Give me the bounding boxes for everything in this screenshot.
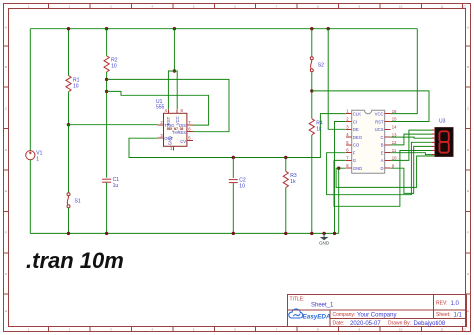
svg-text:14: 14 (392, 125, 397, 130)
svg-text:11: 11 (440, 328, 443, 332)
svg-text:A: A (381, 158, 384, 163)
svg-text:F: F (467, 231, 469, 235)
wire R2 to DIS node (106, 72, 108, 95)
svg-text:B: B (467, 65, 469, 69)
wire segment A (391, 130, 434, 160)
node GND pin8 junction (337, 167, 340, 170)
node C1 bottom junction (105, 232, 108, 235)
svg-text:13: 13 (392, 132, 397, 137)
wire R1 top lead (68, 29, 70, 76)
node RST junction (310, 89, 313, 92)
svg-text:TITLE:: TITLE: (290, 297, 305, 303)
node DE top junction (327, 27, 330, 30)
svg-text:15: 15 (392, 117, 397, 122)
capacitor C2 (229, 177, 246, 189)
svg-text:A: A (467, 26, 469, 30)
svg-text:A: A (5, 26, 7, 30)
wire V1 bottom lead (29, 160, 31, 234)
svg-text:1k: 1k (290, 179, 296, 185)
svg-text:1u: 1u (113, 183, 119, 189)
svg-text:10: 10 (399, 328, 403, 332)
wire 555 supply drop (173, 29, 175, 71)
wire C2 top lead (232, 158, 234, 179)
IC U2 counter CD4026 (346, 109, 397, 174)
wire S2 top lead (311, 29, 313, 57)
svg-text:H: H (467, 309, 469, 313)
wire DIS loop (107, 79, 229, 131)
wire RST pin4 feed (168, 71, 174, 109)
wire display common (336, 156, 435, 187)
capacitor C1 (102, 177, 119, 189)
node C2 bottom junction (232, 232, 235, 235)
svg-text:12: 12 (462, 5, 466, 9)
svg-text:Your Company: Your Company (357, 312, 396, 318)
wire GND bottom rail (30, 232, 338, 234)
svg-text:S1: S1 (75, 199, 81, 205)
wire segment B (391, 134, 434, 145)
svg-text:EasyEDA: EasyEDA (303, 313, 331, 320)
ground (319, 233, 330, 245)
wire C1 to bottom rail (106, 183, 108, 234)
svg-text:D: D (380, 166, 383, 171)
svg-text:C: C (380, 135, 383, 140)
svg-text:555_N7_08: 555_N7_08 (167, 127, 184, 131)
svg-text:16: 16 (392, 109, 397, 114)
wire THRES loop (107, 91, 209, 125)
node R1 top junction (67, 27, 70, 30)
wire R1 to TRIG node (68, 92, 70, 125)
node R4 bottom junction (310, 232, 313, 235)
node CI bottom junction (333, 232, 336, 235)
node R3 bottom junction (284, 232, 287, 235)
svg-text:1: 1 (36, 157, 39, 163)
node 555 supply junction top (173, 27, 176, 30)
wire VCC16 line (391, 29, 418, 114)
switch S1 (67, 193, 81, 208)
node R2 top junction (105, 27, 108, 30)
wire OUT line (129, 114, 346, 158)
svg-text:GND: GND (319, 240, 330, 245)
display U3 seven-segment (432, 119, 453, 157)
svg-text:B: B (381, 143, 384, 148)
wire S1 to bottom rail (68, 208, 70, 234)
wire segment E (391, 153, 434, 155)
node ground junction (322, 232, 325, 235)
resistor R1 (66, 76, 80, 92)
svg-text:Sheet_1: Sheet_1 (311, 303, 334, 309)
wire segment D (391, 146, 434, 193)
voltage source V1 (26, 151, 43, 163)
svg-text:Drawn By:: Drawn By: (388, 321, 411, 327)
svg-text:.tran 10m: .tran 10m (26, 248, 124, 273)
wire segment F (327, 142, 434, 194)
node TRIG junction (67, 123, 70, 126)
svg-text:CLK: CLK (353, 112, 361, 117)
svg-text:11: 11 (440, 5, 443, 9)
svg-text:CI: CI (353, 119, 357, 124)
wire GND pin8 line (339, 168, 346, 233)
node C2 junction (232, 156, 235, 159)
switch S2 (310, 57, 324, 72)
svg-text:CV: CV (180, 139, 186, 144)
svg-text:Date:: Date: (333, 321, 345, 327)
node R3 junction (284, 156, 287, 159)
svg-text:GND: GND (168, 136, 173, 145)
wire R2 top lead (106, 29, 108, 56)
op-amp U1 555 timer (156, 99, 193, 151)
resistor R2 (104, 56, 118, 72)
wire S2 to RST node (311, 72, 313, 119)
wire TRIG line (69, 124, 158, 126)
svg-text:555: 555 (156, 104, 165, 110)
svg-text:B: B (5, 65, 7, 69)
svg-text:Company:: Company: (333, 312, 356, 318)
EasyEDA logo (289, 309, 331, 320)
svg-text:12: 12 (462, 328, 466, 332)
wire segment C (391, 137, 434, 138)
svg-text:GND: GND (353, 166, 362, 171)
wire CI line (335, 122, 346, 234)
node DIS junction (105, 78, 108, 81)
svg-text:CO: CO (353, 143, 360, 148)
svg-text:2020-05-07: 2020-05-07 (350, 321, 381, 327)
svg-text:Debajyoti08: Debajyoti08 (414, 321, 446, 327)
title block (288, 295, 467, 327)
svg-text:10: 10 (399, 5, 403, 9)
svg-text:1/1: 1/1 (454, 312, 463, 318)
svg-text:VCC: VCC (375, 112, 384, 117)
node THRES junction (105, 90, 108, 93)
svg-text:REV:: REV: (436, 301, 447, 307)
wire R3 top lead (285, 158, 287, 172)
svg-text:U3: U3 (439, 119, 446, 125)
svg-text:G: G (353, 158, 356, 163)
svg-text:DEO: DEO (353, 135, 363, 140)
svg-text:1k: 1k (316, 127, 322, 133)
wire VCC top rail (30, 28, 417, 30)
svg-text:E: E (467, 189, 469, 193)
wire DE line (328, 29, 346, 130)
wire V1 top lead (29, 29, 31, 151)
svg-text:F: F (353, 151, 356, 156)
svg-text:12: 12 (392, 140, 397, 145)
svg-text:UCS: UCS (375, 127, 384, 132)
svg-text:10: 10 (239, 183, 245, 189)
wire R3 bottom lead (285, 188, 287, 234)
node 555 supply split (173, 69, 176, 72)
wire R2 node to C1 (106, 95, 108, 178)
svg-text:H: H (5, 309, 7, 313)
svg-text:Sheet:: Sheet: (436, 312, 450, 318)
svg-text:10: 10 (392, 156, 397, 161)
wire R4 to bottom rail (311, 135, 313, 234)
svg-text:1.0: 1.0 (451, 301, 460, 307)
svg-text:DE: DE (353, 127, 359, 132)
svg-text:E: E (5, 189, 7, 193)
wire TRIG node to S1 (68, 125, 70, 193)
resistor R3 (283, 171, 297, 187)
wire VCC pin8 feed (174, 71, 177, 109)
svg-text:10: 10 (73, 84, 79, 90)
svg-text:10: 10 (111, 64, 117, 70)
svg-text:F: F (5, 231, 7, 235)
node S1 bottom junction (67, 232, 70, 235)
node S2 top junction (310, 27, 313, 30)
svg-text:RST: RST (375, 119, 384, 124)
wire segment G (334, 151, 434, 207)
wire RST line (312, 91, 429, 122)
svg-text:11: 11 (392, 148, 397, 153)
wire C2 bottom lead (232, 183, 234, 233)
resistor R4 (309, 119, 323, 135)
svg-text:E: E (381, 151, 384, 156)
svg-text:S2: S2 (318, 63, 324, 69)
